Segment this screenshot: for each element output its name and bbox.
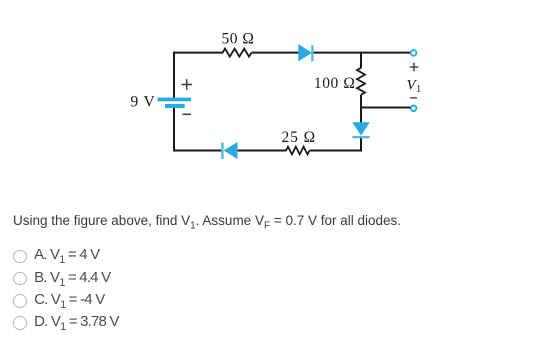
svg-text:25 Ω: 25 Ω bbox=[282, 129, 317, 146]
diode D3 (return path, pointing left) triangle bbox=[224, 142, 238, 159]
wire: middle horizontal to V1 - terminal bbox=[360, 107, 410, 109]
battery − sign bbox=[182, 113, 191, 115]
battery B1 short plate bbox=[165, 104, 185, 108]
wire: right vertical from 100Ω to diode D2 bbox=[360, 95, 362, 123]
resistor R1 50Ω zigzag bbox=[223, 49, 252, 57]
wire: right vertical from D2 to bottom wire bbox=[360, 138, 362, 151]
wire: top-right segment bbox=[314, 52, 411, 54]
wire: top-left segment bbox=[173, 52, 223, 54]
svg-text:100 Ω: 100 Ω bbox=[314, 75, 356, 92]
label V1 bbox=[407, 77, 422, 95]
label 25 Ω bbox=[282, 129, 317, 146]
wire: right vertical from top node to 100Ω bbox=[360, 52, 362, 68]
battery B1 long plate bbox=[158, 98, 192, 102]
label 50 Ω bbox=[222, 31, 255, 48]
wire: left vertical top (battery + lead) bbox=[173, 52, 175, 98]
diode D1 cathode bar bbox=[311, 45, 313, 61]
diode D1 (series, pointing right) triangle bbox=[298, 44, 312, 61]
terminal circle V1 + bbox=[411, 50, 417, 56]
resistor R2 100Ω vertical zigzag bbox=[357, 68, 365, 95]
svg-text:9 V: 9 V bbox=[131, 94, 156, 111]
label − at terminal bbox=[410, 97, 417, 99]
label 9 V bbox=[131, 94, 156, 111]
resistor R3 25Ω zigzag bbox=[286, 147, 310, 155]
diode D2 (shunt, pointing down) triangle bbox=[352, 122, 370, 135]
terminal circle V1 - bbox=[411, 106, 417, 112]
diode D3 cathode bar bbox=[221, 143, 223, 160]
svg-text:50 Ω: 50 Ω bbox=[222, 31, 255, 48]
wire: bottom-right segment bbox=[310, 150, 363, 152]
battery + sign bbox=[182, 79, 193, 90]
label + at terminal bbox=[410, 63, 419, 72]
diode D2 cathode bar bbox=[352, 136, 369, 138]
wire: bottom-left segment bbox=[173, 150, 221, 152]
label 100 Ω bbox=[314, 75, 356, 92]
svg-text:1: 1 bbox=[416, 84, 421, 95]
wire: top-middle segment bbox=[252, 52, 300, 54]
wire: bottom-middle segment bbox=[238, 150, 287, 152]
wire: left vertical bottom (battery - lead) bbox=[173, 108, 175, 152]
